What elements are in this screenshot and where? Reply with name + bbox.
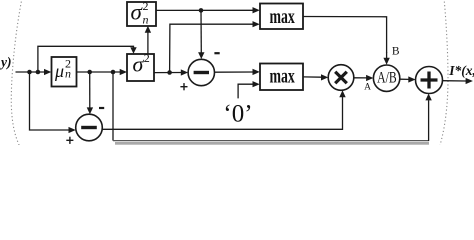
svg-text:n: n xyxy=(65,66,71,80)
wire junction down to summer S1 xyxy=(200,10,202,52)
multiplier circle xyxy=(328,65,354,91)
svg-text:max: max xyxy=(270,6,295,28)
wire input feedback down-left to summer S2 xyxy=(30,72,69,130)
label plus at S2 xyxy=(66,139,73,141)
svg-text:A/B: A/B xyxy=(377,70,397,87)
junction input split down xyxy=(27,70,32,75)
block MU_n^2 xyxy=(52,57,77,87)
wire top max to B line xyxy=(303,17,387,53)
adder circle xyxy=(416,67,443,94)
wire adder to output xyxy=(443,80,467,82)
svg-text:I(x,y): I(x,y) xyxy=(0,55,12,70)
figure boundary dotted curve left xyxy=(11,0,22,146)
summer S1 circle xyxy=(188,59,214,85)
wire sigma_n2 out to top max xyxy=(156,9,253,11)
svg-text:max: max xyxy=(270,66,295,88)
multiplier X glyph xyxy=(335,72,347,84)
wire sigma2 up to sigma_n2 xyxy=(147,33,149,55)
gray shadow band of feedback wire xyxy=(115,142,429,145)
wire mean down to summer S2 top xyxy=(89,72,91,108)
wire mean feedback down to adder bottom xyxy=(112,72,114,141)
label minus at S1 xyxy=(214,52,219,54)
svg-text:B: B xyxy=(392,46,400,58)
wire divider to adder xyxy=(400,78,409,80)
wire sigma2 out to summer S1 xyxy=(154,72,182,74)
divider circle A/B xyxy=(373,65,399,91)
svg-text:n: n xyxy=(143,12,149,26)
svg-text:A: A xyxy=(364,83,371,93)
wire S2 output to multiplier bottom xyxy=(102,97,342,129)
junction mean down xyxy=(87,70,92,75)
figure boundary dotted curve right xyxy=(440,0,449,147)
wire variance up to top max second input xyxy=(170,24,253,72)
junction sigma_n2 split xyxy=(199,8,204,13)
label minus at S2 xyxy=(99,107,104,109)
wire multiplier to divider xyxy=(354,77,367,79)
summer S2 circle xyxy=(76,114,103,141)
svg-text:I*(x,y): I*(x,y) xyxy=(448,63,474,78)
wire top feedback to sigma2 top xyxy=(38,46,134,72)
block sigma_n^2 xyxy=(127,2,156,26)
svg-text:2: 2 xyxy=(143,0,149,13)
label plus at S1 xyxy=(180,86,187,88)
wire middle max to multiplier xyxy=(303,76,322,78)
svg-text:σ: σ xyxy=(133,52,145,77)
summer S2 minus bar xyxy=(81,126,97,129)
wire input to MU block xyxy=(16,71,46,73)
junction input split up xyxy=(36,70,41,75)
wire up into adder xyxy=(428,100,430,141)
svg-text:2: 2 xyxy=(144,51,150,65)
junction variance split xyxy=(167,70,172,75)
svg-text:μ: μ xyxy=(54,61,64,81)
block max middle xyxy=(260,64,303,91)
block max top xyxy=(260,4,303,30)
block sigma^2 xyxy=(127,54,154,81)
wire '0' to middle max xyxy=(238,84,252,98)
junction mean to adder feedback xyxy=(111,70,116,75)
wire MU to sigma2 xyxy=(77,71,121,73)
svg-text:‘0’: ‘0’ xyxy=(223,101,252,128)
summer S1 minus bar xyxy=(194,71,209,74)
wire S1 to middle max xyxy=(215,71,254,73)
adder plus glyph xyxy=(421,78,438,81)
